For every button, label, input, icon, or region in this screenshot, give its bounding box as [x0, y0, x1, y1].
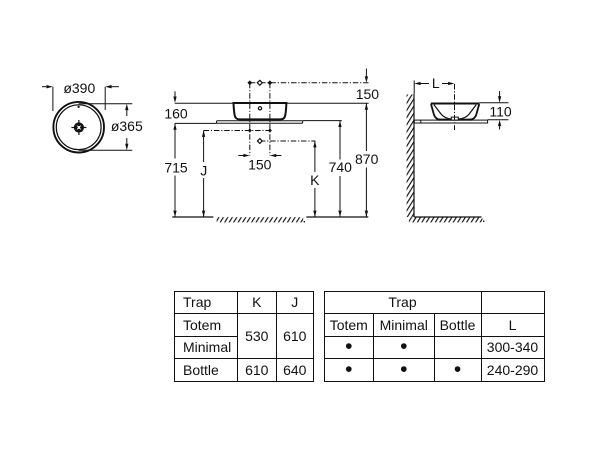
basin side profile rim: [431, 103, 479, 105]
node K centerline: [260, 140, 316, 142]
basin side bottom: [438, 119, 472, 121]
dimension 740: [339, 121, 341, 217]
ground line front left: [172, 216, 213, 218]
ground hatch end dot front: [304, 221, 305, 222]
dimension K: [314, 141, 316, 217]
extension line slab bottom left: [175, 122, 217, 124]
dimension J: [203, 131, 205, 218]
drain fitting: [451, 117, 458, 120]
dimension 160: [174, 91, 176, 97]
dimension 150 supply height: [365, 69, 367, 77]
ground hatch side: [409, 217, 483, 222]
ground hatch front: [217, 217, 304, 222]
diamond supply right: [268, 80, 273, 85]
svg-text:ø365: ø365: [111, 118, 143, 134]
wall hatch: [407, 95, 414, 218]
basin inner rim circle: [56, 105, 101, 150]
diamond J right: [268, 129, 272, 133]
supply centerline vertical left: [249, 83, 251, 156]
basin body: [234, 103, 287, 119]
diamond faucet center: [257, 80, 262, 85]
svg-text:J: J: [200, 162, 207, 178]
basin centerline side: [454, 84, 456, 130]
extension line basin top right: [286, 102, 368, 104]
basin outer rim circle: [53, 102, 104, 153]
drain disc: [74, 122, 84, 132]
svg-text:110: 110: [489, 104, 512, 120]
svg-text:870: 870: [355, 151, 379, 167]
extension line slab top right: [303, 120, 342, 122]
basin side inner wall left: [434, 105, 452, 120]
basin rim end caps: [430, 104, 432, 107]
faucet hole: [258, 107, 261, 110]
ground line front right: [306, 216, 368, 218]
svg-text:150: 150: [248, 156, 272, 172]
svg-text:740: 740: [329, 159, 353, 175]
trap dimension table left: [174, 291, 314, 382]
supply centerline horizontal: [250, 82, 369, 84]
svg-text:715: 715: [164, 160, 188, 176]
extension line basin top left: [175, 102, 234, 104]
dimension 110: [479, 102, 508, 104]
drain crosshair ticks: [71, 120, 86, 135]
countertop slab side: [414, 120, 487, 123]
basin side outer wall right: [470, 104, 479, 119]
diamond J left: [248, 129, 252, 133]
svg-text:150: 150: [356, 86, 380, 102]
svg-text:160: 160: [164, 106, 188, 122]
diamond K drain: [257, 139, 262, 144]
ground line side: [414, 216, 482, 218]
dimension ø365: [79, 104, 133, 151]
svg-text:K: K: [310, 172, 320, 188]
dimension 870: [365, 103, 367, 217]
svg-text:ø390: ø390: [63, 80, 95, 96]
supply centerline vertical right: [269, 83, 271, 156]
ground hatch end dot side: [483, 221, 484, 222]
overflow hole: [77, 106, 79, 108]
diamond supply left: [247, 80, 252, 85]
dimension ø390: [42, 87, 119, 111]
basin side outer wall left: [431, 104, 440, 119]
countertop slab: [217, 121, 303, 123]
node J centerline: [204, 130, 272, 132]
dimension L: [413, 81, 415, 94]
drain star: [77, 125, 82, 130]
slab wall joint tick: [420, 120, 422, 123]
basin side inner wall right: [458, 105, 476, 120]
dimension 715: [174, 123, 176, 217]
wall line: [413, 94, 415, 217]
dimension 150 between supplies: [238, 155, 244, 157]
svg-text:L: L: [432, 75, 440, 91]
trap compatibility table right: [324, 291, 545, 382]
